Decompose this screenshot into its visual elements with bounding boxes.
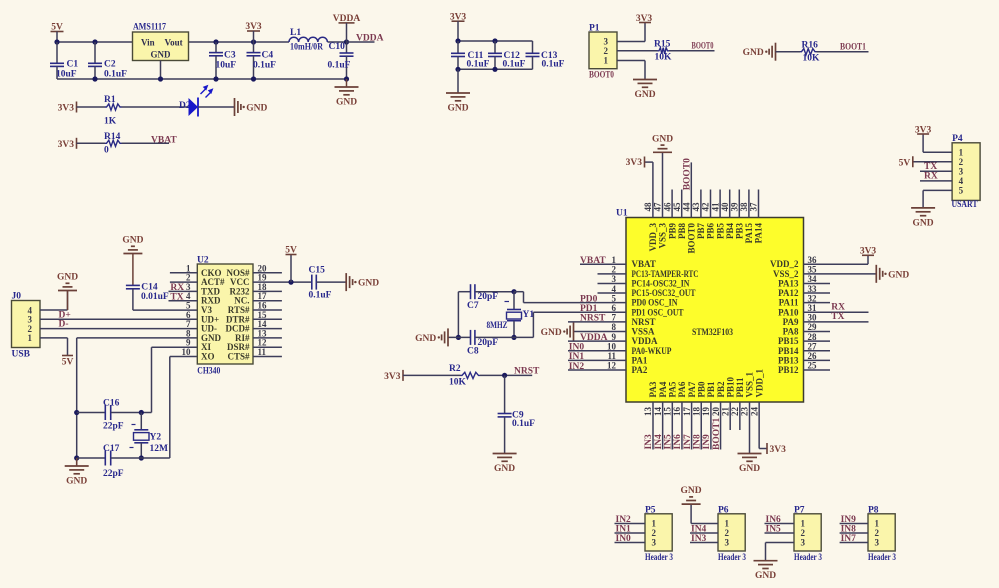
svg-text:3: 3 xyxy=(612,274,617,284)
connector P8 Header 3 xyxy=(868,505,896,563)
capacitor C8 20pF xyxy=(448,330,514,356)
svg-text:0.1uF: 0.1uF xyxy=(542,60,565,70)
svg-text:R16: R16 xyxy=(802,40,819,50)
wire U1 pin36 to 3V3 xyxy=(804,255,869,264)
svg-text:4: 4 xyxy=(959,176,964,186)
svg-text:PA6: PA6 xyxy=(677,381,687,397)
svg-text:PB0: PB0 xyxy=(696,381,706,398)
connector P7 Header 3 xyxy=(794,505,822,563)
net label IN4 + wire (P6.2) xyxy=(690,525,718,535)
net label IN7 + wire (P8.3) xyxy=(840,534,868,544)
svg-text:Header 3: Header 3 xyxy=(645,553,673,563)
svg-text:10K: 10K xyxy=(449,377,467,387)
svg-text:PD0: PD0 xyxy=(580,294,598,304)
svg-text:10uF: 10uF xyxy=(56,70,77,80)
ground GND (C15) xyxy=(346,273,379,291)
svg-text:VSSA: VSSA xyxy=(632,327,656,337)
net label TX + wire (P4.3) xyxy=(920,162,952,172)
wire U1 pin24 to 3V3 xyxy=(759,402,767,449)
ground GND (U1 VSS_2) xyxy=(876,265,909,283)
svg-text:30: 30 xyxy=(808,313,818,323)
net label IN0 + wire (U1.10) xyxy=(568,343,626,353)
svg-text:3V3: 3V3 xyxy=(626,158,643,168)
svg-text:45: 45 xyxy=(672,202,682,212)
svg-text:PA12: PA12 xyxy=(778,288,799,298)
svg-text:PA3: PA3 xyxy=(648,381,658,397)
svg-text:22pF: 22pF xyxy=(103,469,124,479)
wire C17 to U2 pin10 (XO) xyxy=(170,357,198,459)
svg-text:VBAT: VBAT xyxy=(632,259,656,269)
capacitor C2 xyxy=(88,42,127,80)
svg-text:USART: USART xyxy=(952,200,979,210)
svg-text:4: 4 xyxy=(612,284,617,294)
svg-text:GND: GND xyxy=(122,236,143,246)
net label IN1 + wire (P5.2) xyxy=(615,525,646,535)
svg-text:35: 35 xyxy=(808,265,818,275)
crystal Y2 12M xyxy=(130,413,169,459)
svg-text:Y2: Y2 xyxy=(150,433,162,443)
svg-text:PB12: PB12 xyxy=(778,365,799,375)
svg-text:C2: C2 xyxy=(104,59,116,69)
U1 left pin numbers xyxy=(607,255,617,371)
capacitor C3 xyxy=(209,42,236,79)
svg-text:TX: TX xyxy=(924,162,937,172)
wire bottom rail (regulator ground) xyxy=(57,78,347,80)
svg-text:VDDA: VDDA xyxy=(632,336,658,346)
LED D2 xyxy=(179,86,212,117)
svg-text:TX: TX xyxy=(170,292,183,302)
net label IN2 + wire (U1.12) xyxy=(568,362,626,372)
svg-text:VSS_2: VSS_2 xyxy=(773,269,799,279)
svg-text:PB14: PB14 xyxy=(778,346,799,356)
power port 3V3 (VBAT row) xyxy=(58,138,77,150)
svg-text:XO: XO xyxy=(201,352,215,362)
svg-text:C15: C15 xyxy=(309,265,326,275)
svg-text:3: 3 xyxy=(725,538,730,548)
svg-text:GND: GND xyxy=(246,104,267,114)
capacitor C14 0.01uF xyxy=(126,283,169,311)
svg-text:36: 36 xyxy=(808,255,818,265)
svg-text:D-: D- xyxy=(59,320,69,330)
svg-text:PA8: PA8 xyxy=(783,327,799,337)
svg-text:CH340: CH340 xyxy=(197,367,220,377)
svg-text:1: 1 xyxy=(28,333,33,343)
svg-text:15: 15 xyxy=(663,407,673,417)
node C7/Y1 xyxy=(511,289,516,294)
svg-text:IN3: IN3 xyxy=(691,534,707,544)
svg-text:VDD_1: VDD_1 xyxy=(754,369,764,398)
svg-text:GND: GND xyxy=(743,48,764,58)
capacitor C12 xyxy=(488,41,526,70)
svg-text:24: 24 xyxy=(749,407,759,417)
svg-text:3V3: 3V3 xyxy=(384,372,401,382)
svg-text:10K: 10K xyxy=(655,53,673,63)
svg-text:IN7: IN7 xyxy=(841,534,857,544)
svg-text:3V3: 3V3 xyxy=(58,140,75,150)
power port 5V (U2 VCC) xyxy=(285,246,297,283)
wire P1 pin1 to GND xyxy=(617,61,645,80)
resistor R2 10K xyxy=(449,364,480,387)
svg-text:PB4: PB4 xyxy=(725,223,735,240)
svg-text:IN2: IN2 xyxy=(616,515,632,525)
svg-text:PA5: PA5 xyxy=(668,381,678,397)
svg-text:PA10: PA10 xyxy=(778,307,799,317)
svg-text:GND: GND xyxy=(913,218,934,228)
svg-text:14: 14 xyxy=(653,407,663,417)
svg-text:Header 3: Header 3 xyxy=(718,553,746,563)
svg-text:PB7: PB7 xyxy=(696,223,706,240)
svg-text:0.1uF: 0.1uF xyxy=(467,60,490,70)
svg-text:1: 1 xyxy=(959,148,964,158)
svg-text:IN1: IN1 xyxy=(569,352,585,362)
svg-text:26: 26 xyxy=(808,351,818,361)
wire P4 pin1 to 3V3 xyxy=(923,134,952,152)
connector P5 Header 3 xyxy=(645,505,673,563)
svg-text:GND: GND xyxy=(652,134,673,144)
node Y2 bottom xyxy=(139,455,144,460)
svg-text:5: 5 xyxy=(612,293,617,303)
svg-text:PB2: PB2 xyxy=(716,381,726,398)
svg-text:C7: C7 xyxy=(467,301,479,311)
svg-text:PB3: PB3 xyxy=(735,223,745,240)
svg-text:PA9: PA9 xyxy=(783,317,799,327)
svg-text:1: 1 xyxy=(801,519,806,529)
svg-text:29: 29 xyxy=(808,322,818,332)
crystal Y1 8MHZ xyxy=(487,292,535,338)
svg-text:C17: C17 xyxy=(103,444,120,454)
svg-text:PC15-OSC32_OUT: PC15-OSC32_OUT xyxy=(632,288,696,298)
svg-text:33: 33 xyxy=(808,284,818,294)
svg-text:1K: 1K xyxy=(104,117,117,127)
node bottom rail xyxy=(455,67,497,72)
svg-text:17: 17 xyxy=(682,407,692,417)
wire P7 pin3 to GND xyxy=(766,543,795,561)
svg-text:VDD_3: VDD_3 xyxy=(648,223,658,252)
svg-text:IN3: IN3 xyxy=(644,434,654,450)
svg-text:IN5: IN5 xyxy=(664,434,674,450)
node C8/Y1 xyxy=(511,335,516,340)
svg-text:IN1: IN1 xyxy=(616,525,632,535)
node NRST/C9 xyxy=(502,373,507,378)
ground GND (P4) xyxy=(911,208,935,229)
inductor L1 10mH/0R xyxy=(289,28,327,52)
power port 3V3 (U1 VDD_1) xyxy=(767,443,786,455)
capacitor C1 xyxy=(50,42,78,80)
U1 top pin names (rotated) xyxy=(648,223,764,254)
net label IN3 + wire (P6.3) xyxy=(690,534,718,544)
wire 3V3 to R2 xyxy=(403,374,461,376)
svg-text:PB11: PB11 xyxy=(735,377,745,398)
U2 pin stubs right xyxy=(253,273,282,357)
power port 3V3 (P4) xyxy=(915,126,932,136)
svg-text:43: 43 xyxy=(691,202,701,212)
svg-text:VDD_2: VDD_2 xyxy=(770,259,799,269)
capacitor C10 xyxy=(328,42,354,79)
svg-text:VDDA: VDDA xyxy=(580,333,608,343)
net label D- and wire J0.2 to U2.7 xyxy=(40,320,198,330)
power port 3V3 (decoupling bank) xyxy=(450,12,467,41)
capacitor C17 22pF xyxy=(77,444,170,479)
ground GND (U1 VSS_1) xyxy=(738,453,762,474)
svg-text:IN5: IN5 xyxy=(766,525,782,535)
ground GND (P1) xyxy=(633,79,657,100)
wire J0 pin1 to 5V xyxy=(40,338,68,356)
svg-text:R14: R14 xyxy=(104,132,121,142)
svg-text:3V3: 3V3 xyxy=(860,246,877,256)
svg-text:L1: L1 xyxy=(290,28,301,38)
svg-text:PA13: PA13 xyxy=(778,278,799,288)
connector P6 Header 3 xyxy=(718,505,746,563)
svg-text:3: 3 xyxy=(875,538,880,548)
svg-text:PA4: PA4 xyxy=(658,381,668,397)
svg-text:VDDA: VDDA xyxy=(356,34,384,44)
capacitor C7 20pF xyxy=(458,284,514,311)
svg-text:28: 28 xyxy=(808,332,818,342)
svg-text:31: 31 xyxy=(808,303,818,313)
net label NRST + wire (U1.7) xyxy=(568,314,626,324)
node C16 rail xyxy=(74,410,79,415)
wire P4 pin5 to GND xyxy=(923,190,952,208)
power port 3V3 (regulator output) xyxy=(245,22,262,42)
svg-text:9: 9 xyxy=(612,332,617,342)
net label IN0 + wire (P5.3) xyxy=(615,534,646,544)
connector P1 (BOOT0 jumper) xyxy=(589,24,617,69)
ground GND (supply rail) xyxy=(335,79,359,108)
resistor R1 1K xyxy=(104,95,122,127)
svg-text:3: 3 xyxy=(801,538,806,548)
power port 5V (P4) + wire pin2 xyxy=(899,156,952,168)
svg-text:8: 8 xyxy=(612,322,617,332)
svg-text:IN4: IN4 xyxy=(691,525,707,535)
connector J0 USB xyxy=(12,292,41,360)
svg-text:PB8: PB8 xyxy=(677,223,687,240)
svg-text:PC14-OSC32_IN: PC14-OSC32_IN xyxy=(632,278,690,288)
svg-text:GND: GND xyxy=(541,328,562,338)
svg-text:PA1: PA1 xyxy=(632,355,648,365)
svg-text:GND: GND xyxy=(358,279,379,289)
capacitor C13 xyxy=(526,41,565,70)
svg-text:C1: C1 xyxy=(67,59,79,69)
svg-text:48: 48 xyxy=(643,202,653,212)
U2 right pin names xyxy=(226,268,250,362)
net label BOOT0 + wire xyxy=(669,42,715,52)
svg-text:IN4: IN4 xyxy=(654,434,664,450)
svg-text:2: 2 xyxy=(801,528,806,538)
wire 5V top rail xyxy=(57,41,347,43)
svg-text:VSS_1: VSS_1 xyxy=(745,371,755,397)
wire U2 pin8 GND rail xyxy=(77,338,198,466)
svg-text:IN9: IN9 xyxy=(702,434,712,450)
ground GND (crystal) xyxy=(415,328,448,346)
svg-text:2: 2 xyxy=(725,528,730,538)
svg-text:18: 18 xyxy=(691,407,701,417)
ground GND (P6) xyxy=(681,486,702,504)
svg-text:27: 27 xyxy=(808,341,818,351)
U1 right pin numbers xyxy=(808,255,818,371)
net label D+ and wire J0.3 to U2.6 xyxy=(40,310,198,320)
svg-text:3: 3 xyxy=(652,538,657,548)
svg-text:21: 21 xyxy=(720,407,730,417)
svg-text:20pF: 20pF xyxy=(478,338,499,348)
svg-text:38: 38 xyxy=(739,202,749,212)
svg-text:1: 1 xyxy=(612,255,617,265)
svg-text:BOOT0: BOOT0 xyxy=(589,71,614,81)
svg-text:3: 3 xyxy=(959,167,964,177)
svg-text:6: 6 xyxy=(612,303,617,313)
wire C14 to U2 pin5 (V3) xyxy=(133,309,198,311)
svg-text:GND: GND xyxy=(681,486,702,496)
svg-text:CTS#: CTS# xyxy=(227,352,250,362)
svg-text:10uF: 10uF xyxy=(216,61,237,71)
net label RX + wire (U2.3) xyxy=(169,283,198,293)
svg-text:GND: GND xyxy=(336,98,357,108)
svg-text:GND: GND xyxy=(634,90,655,100)
svg-text:25: 25 xyxy=(808,361,818,371)
svg-text:32: 32 xyxy=(808,293,818,303)
svg-text:GND: GND xyxy=(494,464,515,474)
wire left rail C7-C8 xyxy=(457,292,459,338)
capacitor C16 22pF xyxy=(77,399,152,432)
svg-text:5: 5 xyxy=(959,186,964,196)
power port 5V (input rail) xyxy=(51,23,64,42)
ground GND (LED) xyxy=(235,98,268,116)
svg-text:PB9: PB9 xyxy=(667,223,677,240)
svg-text:R2: R2 xyxy=(449,364,461,374)
net label PD0 + wire (U1.5) xyxy=(524,294,627,304)
svg-text:3V3: 3V3 xyxy=(58,104,75,114)
svg-text:12M: 12M xyxy=(150,444,169,454)
net label VDDA + wire (U1.9) xyxy=(568,333,626,343)
svg-text:5V: 5V xyxy=(62,358,74,368)
svg-text:8MHZ: 8MHZ xyxy=(487,321,508,331)
net label IN6 + wire (P7.1) xyxy=(765,515,795,525)
net label BOOT0 (rotated) + wire U1 pin44 xyxy=(683,158,693,218)
svg-text:PB13: PB13 xyxy=(778,355,799,365)
wire J0 pin4 to GND xyxy=(40,291,68,311)
svg-text:PD1 OSC_OUT: PD1 OSC_OUT xyxy=(632,307,684,317)
wire P6 pin1 to GND xyxy=(691,504,718,523)
svg-text:BOOT0: BOOT0 xyxy=(687,223,697,254)
svg-text:GND: GND xyxy=(415,334,436,344)
svg-text:2: 2 xyxy=(875,528,880,538)
svg-text:C10: C10 xyxy=(329,42,346,52)
wire R1 to LED xyxy=(122,106,189,108)
svg-text:0.1uF: 0.1uF xyxy=(104,70,127,80)
svg-text:2: 2 xyxy=(959,157,964,167)
svg-text:TX: TX xyxy=(831,312,844,322)
svg-text:PB1: PB1 xyxy=(706,381,716,398)
U1 bottom pin names (rotated) xyxy=(648,369,764,398)
svg-text:AMS1117: AMS1117 xyxy=(133,23,166,33)
svg-text:BOOT0: BOOT0 xyxy=(692,42,714,52)
wire 3V3 to R14 xyxy=(77,142,106,144)
svg-text:44: 44 xyxy=(682,202,692,212)
svg-text:1: 1 xyxy=(725,519,730,529)
wire U2 pin19 VCC to C15 xyxy=(253,281,312,283)
net label BOOT1 + wire xyxy=(817,43,869,53)
svg-text:Vout: Vout xyxy=(165,38,183,48)
svg-text:0.1uF: 0.1uF xyxy=(512,419,535,429)
svg-text:20: 20 xyxy=(711,407,721,417)
svg-text:PA11: PA11 xyxy=(779,298,799,308)
power port VDDA (top) xyxy=(333,14,361,42)
svg-text:VBAT: VBAT xyxy=(580,256,606,266)
svg-text:10: 10 xyxy=(607,341,617,351)
net label TX + wire (U1.30) xyxy=(804,312,869,322)
svg-text:11: 11 xyxy=(607,351,616,361)
net label PD1 + wire (U1.6) xyxy=(533,304,626,314)
svg-text:PA0-WKUP: PA0-WKUP xyxy=(632,346,672,356)
svg-text:BOOT1: BOOT1 xyxy=(840,43,866,53)
svg-text:10mH/0R: 10mH/0R xyxy=(290,42,323,52)
wire decoupling top rail xyxy=(458,40,533,42)
power port 5V (USB VBUS) xyxy=(62,356,74,368)
node VCC junction xyxy=(288,280,293,285)
svg-text:47: 47 xyxy=(653,202,663,212)
svg-text:R15: R15 xyxy=(654,39,671,49)
net label TX + wire (U2.4) xyxy=(169,292,198,302)
svg-text:0.01uF: 0.01uF xyxy=(141,292,169,302)
svg-text:PA7: PA7 xyxy=(687,381,697,397)
svg-text:Y1: Y1 xyxy=(523,310,535,320)
svg-text:10: 10 xyxy=(182,347,192,357)
svg-text:GND: GND xyxy=(57,273,78,283)
capacitor C4 xyxy=(247,42,277,79)
svg-text:PB15: PB15 xyxy=(778,336,799,346)
net label NRST + wire xyxy=(480,366,540,376)
svg-text:0.1uF: 0.1uF xyxy=(309,290,332,300)
svg-text:PA14: PA14 xyxy=(754,223,764,244)
svg-text:STM32F103: STM32F103 xyxy=(692,328,733,338)
connector P4 USART xyxy=(952,134,981,210)
power port 3V3 (LED row) xyxy=(58,102,77,114)
U1 pin stubs left (2,3,4) xyxy=(598,274,627,293)
net label IN8 + wire (P8.2) xyxy=(840,525,868,535)
wire C8 junction to U1 PD1 xyxy=(514,312,533,337)
ground GND (crystal rail) xyxy=(65,458,89,487)
svg-text:GND: GND xyxy=(888,270,909,280)
svg-text:5V: 5V xyxy=(899,158,911,168)
svg-text:3: 3 xyxy=(604,37,609,47)
svg-text:VBAT: VBAT xyxy=(151,136,177,146)
svg-text:0.1uF: 0.1uF xyxy=(253,61,276,71)
svg-text:34: 34 xyxy=(808,274,818,284)
node rail junctions bottom xyxy=(92,76,349,81)
svg-text:11: 11 xyxy=(258,347,267,357)
ground GND (VSSA) xyxy=(541,323,574,341)
wire U1 pin48 to 3V3 xyxy=(645,162,653,217)
svg-text:0: 0 xyxy=(104,146,109,156)
svg-text:40: 40 xyxy=(720,202,730,212)
wire U1 pin35 to GND xyxy=(804,273,877,275)
svg-text:NRST: NRST xyxy=(514,366,540,376)
svg-text:R1: R1 xyxy=(104,95,116,105)
power port 3V3 (U1 VDD_2) xyxy=(860,246,877,256)
svg-text:IN2: IN2 xyxy=(569,362,585,372)
svg-text:GND: GND xyxy=(151,49,172,59)
svg-text:GND: GND xyxy=(755,571,776,581)
U2 left pin numbers xyxy=(182,263,192,357)
wire 3V3 to R1 xyxy=(77,106,106,108)
net label VBAT + wire xyxy=(122,136,178,146)
svg-text:1: 1 xyxy=(652,519,657,529)
svg-text:GND: GND xyxy=(66,477,87,487)
U1 top pin stubs xyxy=(672,190,758,218)
net label IN1 + wire (U1.11) xyxy=(568,352,626,362)
svg-text:IN0: IN0 xyxy=(569,343,585,353)
ground GND (R16) xyxy=(743,43,776,61)
ground GND (U1 top) xyxy=(652,134,673,153)
